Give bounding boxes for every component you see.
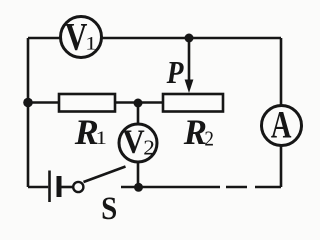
svg-text:2: 2 <box>204 128 214 151</box>
svg-text:1: 1 <box>96 127 107 149</box>
svg-text:S: S <box>101 189 117 226</box>
svg-text:1: 1 <box>85 32 96 54</box>
svg-text:A: A <box>271 104 292 146</box>
svg-text:P: P <box>166 55 184 90</box>
svg-text:R: R <box>183 111 207 152</box>
svg-text:V: V <box>122 123 145 161</box>
svg-text:2: 2 <box>143 136 155 160</box>
